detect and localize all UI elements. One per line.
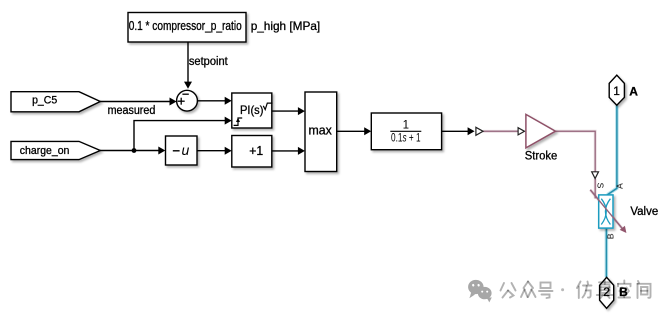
svg-text:S: S [596, 183, 606, 189]
svg-text:u: u [182, 142, 190, 158]
svg-text:setpoint: setpoint [189, 56, 229, 68]
svg-text:charge_on: charge_on [20, 145, 70, 157]
svg-text:1: 1 [403, 120, 409, 132]
svg-text:A: A [629, 85, 638, 99]
svg-text:p_C5: p_C5 [32, 94, 57, 106]
svg-text:measured: measured [108, 105, 156, 117]
svg-text:+1: +1 [249, 144, 263, 158]
svg-text:B: B [606, 233, 616, 239]
svg-text:PI(s): PI(s) [240, 103, 263, 117]
svg-text:p_high [MPa]: p_high [MPa] [251, 19, 321, 33]
svg-text:Stroke: Stroke [525, 150, 558, 162]
svg-text:max: max [309, 124, 333, 138]
svg-text:A: A [614, 183, 624, 189]
svg-text:1: 1 [613, 84, 620, 98]
svg-text:0.1s + 1: 0.1s + 1 [391, 133, 421, 145]
svg-text:0.1 * compressor_p_ratio: 0.1 * compressor_p_ratio [129, 19, 242, 33]
svg-text:Valve: Valve [630, 206, 658, 218]
